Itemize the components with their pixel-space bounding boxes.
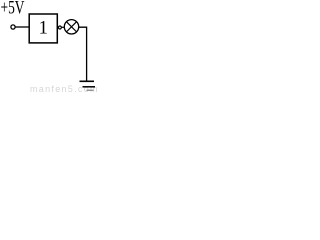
lamp L1 — [64, 20, 78, 34]
inverter output bubble — [58, 26, 61, 29]
wire lamp to ground — [79, 27, 87, 81]
svg-text:manfen5.com: manfen5.com — [30, 84, 98, 94]
svg-text:1: 1 — [39, 19, 48, 39]
input terminal circle — [11, 25, 15, 29]
wire bubble to lamp — [62, 26, 65, 28]
svg-text:+5V: +5V — [1, 0, 25, 19]
wire input to gate — [15, 26, 29, 28]
logic gate U1 box — [29, 14, 57, 43]
ground — [80, 80, 95, 82]
